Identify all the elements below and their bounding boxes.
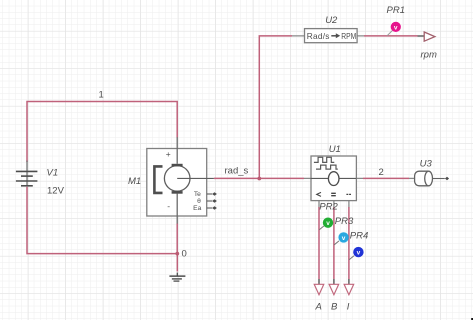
svg-text:M1: M1 [128,176,141,187]
net label 2 [379,167,384,178]
svg-text:θ: θ [197,198,201,205]
svg-text:rpm: rpm [421,50,437,61]
label I [347,302,350,313]
wire phase B down [333,207,335,279]
label U3 [420,158,433,169]
label PR4 [350,230,368,241]
probe PR3 [334,232,349,245]
probe PR1 [387,22,401,36]
svg-text:A: A [315,302,322,313]
svg-text:U2: U2 [325,15,338,26]
label U2 [325,15,338,26]
svg-text:v: v [394,24,398,31]
svg-text:1: 1 [99,90,104,101]
motor M1 [147,137,217,223]
svg-text:-: - [167,201,170,211]
off-page connector B [329,279,339,295]
svg-text:PR3: PR3 [335,216,354,227]
off-page connector A [314,279,324,295]
svg-text:RPM: RPM [341,31,356,41]
pin stub of rpm connector [418,35,425,37]
svg-text:B: B [331,302,338,313]
svg-text:PR2: PR2 [319,201,338,212]
wire node 0 to ground [176,254,178,272]
svg-text:I: I [347,302,350,313]
block U1 [304,156,363,208]
svg-text:+: + [166,149,171,159]
battery V1 [16,161,38,187]
wire U2 to rpm connector [364,35,418,37]
svg-text:12V: 12V [47,186,65,197]
label A [315,302,322,313]
off-page connector I [344,279,354,295]
label PR3 [335,216,354,227]
svg-text:v: v [357,250,361,257]
block U2 Rad/s to RPM [292,29,364,43]
wire current I down [348,207,350,279]
svg-text:U3: U3 [420,158,433,169]
label PR1 [387,5,405,16]
wire rad_s from motor shaft to U1 [214,177,304,179]
wire net 2 U1 to U3 [363,177,409,179]
svg-text:PR1: PR1 [387,5,405,16]
label rpm [421,50,437,61]
wire phase A down [318,207,320,279]
corner mark [471,318,473,320]
label U1 [329,144,341,155]
off-page connector rpm [424,32,435,41]
svg-text:Rad/s: Rad/s [307,31,330,41]
probe PR4 [349,247,363,260]
svg-text:Ea: Ea [193,205,201,212]
label B [331,302,338,313]
svg-text:2: 2 [379,167,384,178]
net label rad_s [225,166,249,177]
connector U3 [409,171,449,186]
junction node 0 [175,252,179,256]
net label 0 [182,249,187,260]
label M1 [128,176,141,187]
svg-text:rad_s: rad_s [225,166,249,177]
svg-text:0: 0 [182,249,187,260]
svg-text:PR4: PR4 [350,230,368,241]
junction rad_s [257,177,261,181]
svg-text:v: v [326,220,330,227]
net label 1 [99,90,104,101]
svg-text:Te: Te [194,191,201,198]
svg-text:V1: V1 [47,168,59,179]
label V1 [47,168,59,179]
wire motor - to node 0 [176,223,178,253]
svg-text:U1: U1 [329,144,341,155]
value label 12V [47,186,65,197]
wire rad_s vertical up [259,36,292,179]
ground [169,273,185,282]
wire net 1 from battery top to motor + [27,102,177,163]
svg-text:v: v [342,235,346,242]
wire battery bottom to node 0 [27,187,177,254]
probe PR2 [319,218,333,230]
label PR2 [319,201,338,212]
